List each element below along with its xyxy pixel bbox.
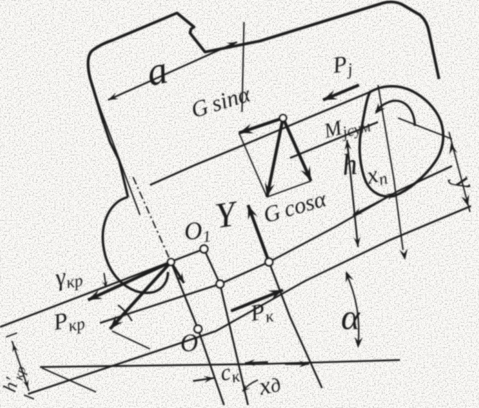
force Y normal reaction [248, 205, 269, 262]
wire ground line G1 wheel contact line [100, 166, 452, 323]
wire P_kr line extension [112, 331, 150, 349]
moment M_j_sum arc [376, 101, 415, 126]
force G sin alpha [239, 118, 283, 133]
svg-text:h: h [341, 148, 359, 182]
wire parallelogram side 2 [267, 181, 311, 197]
wire hitch line through A and O1 [0, 249, 204, 327]
dimension h line [345, 140, 361, 247]
svg-text:O: O [179, 329, 200, 358]
force P_j inertia [323, 85, 359, 100]
angle gamma_kr arc [118, 305, 132, 321]
wire parallelogram side 1 [239, 133, 267, 197]
wire y dimension line [449, 132, 470, 212]
x_d leader arc [243, 380, 258, 391]
node centre of gravity [280, 115, 287, 122]
wire perpendicular through O1 and P2 [204, 249, 248, 405]
wire h_kr bottom tick [24, 395, 34, 399]
node O [194, 325, 202, 333]
force G cos alpha [283, 118, 311, 181]
wire h_kr top tick [6, 333, 17, 337]
wire perpendicular through A and O [171, 262, 224, 405]
wire lower slope line G2 [28, 206, 471, 394]
wire front axle dash-dot centre line [133, 177, 171, 262]
node O1 [200, 245, 208, 253]
wire a extension left [97, 100, 140, 215]
force G resultant [265, 118, 283, 197]
dimension angle alpha arc [346, 273, 359, 346]
wire h_kr dimension line [12, 341, 29, 391]
dimension x_d right arrow [285, 361, 309, 368]
force P_kr drawbar pull [110, 262, 171, 329]
node P2 contact under O1 [216, 280, 224, 288]
wire wheel centre extension [378, 85, 403, 250]
wire perpendicular through Y point [269, 262, 322, 388]
front wheel [103, 197, 168, 293]
force P_k driving [231, 290, 283, 311]
body left edge lower part [104, 124, 128, 197]
dimension c_k left arrow [193, 376, 214, 383]
wire fender line M1 [150, 92, 370, 185]
force hitch normal component [171, 262, 184, 283]
dimension x_p line [353, 193, 395, 215]
force P_kr slope component [88, 262, 171, 300]
wire horizon line [40, 360, 400, 367]
gamma_kr leader tick [104, 273, 106, 286]
dimension a line [108, 42, 237, 100]
dimension x_d left arrow [245, 359, 268, 366]
wire body bottom line M2 [290, 122, 378, 158]
node A hitch point [168, 259, 175, 266]
wire y dimension extension through wheel [398, 118, 452, 139]
node Y application point [265, 258, 273, 266]
svg-text:α: α [341, 297, 361, 337]
wire a extension right [242, 22, 244, 112]
tractor body outline [88, 2, 439, 124]
rear wheel [360, 86, 444, 196]
wire vertex lower line [42, 368, 96, 392]
